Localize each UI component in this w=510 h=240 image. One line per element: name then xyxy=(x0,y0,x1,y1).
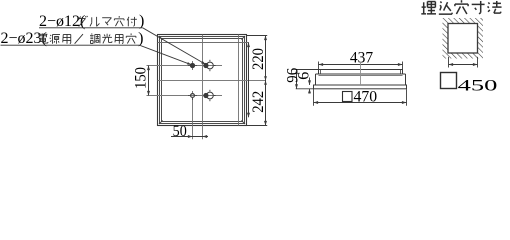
svg-text:242: 242 xyxy=(250,91,267,113)
svg-text:470: 470 xyxy=(354,88,378,105)
svg-text:50: 50 xyxy=(173,123,187,140)
svg-text:2−ø12(: 2−ø12( xyxy=(39,13,85,30)
svg-text:150: 150 xyxy=(133,67,150,89)
svg-text:6: 6 xyxy=(296,72,313,80)
svg-text:450: 450 xyxy=(458,78,498,95)
svg-text:): ) xyxy=(138,30,143,47)
svg-text:): ) xyxy=(139,13,144,30)
svg-text:220: 220 xyxy=(250,48,267,70)
